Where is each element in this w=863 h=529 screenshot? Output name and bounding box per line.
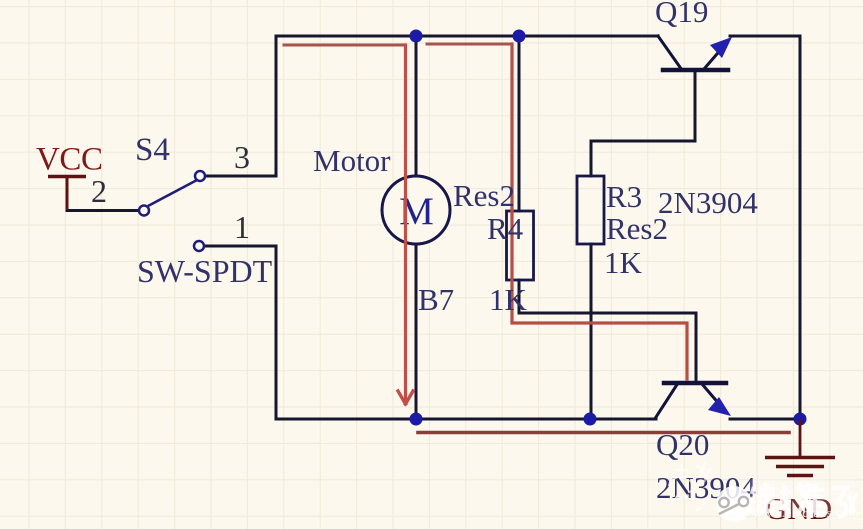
svg-text:SW-SPDT: SW-SPDT <box>137 253 273 289</box>
svg-text:Q19: Q19 <box>655 0 708 29</box>
svg-text:B7: B7 <box>418 282 454 317</box>
svg-text:VCC: VCC <box>36 142 103 178</box>
svg-text:2N3904: 2N3904 <box>658 185 758 220</box>
svg-text:1: 1 <box>234 209 250 245</box>
svg-text:www.elecfans.com: www.elecfans.com <box>858 463 863 529</box>
svg-text:S4: S4 <box>135 132 170 168</box>
svg-text:3: 3 <box>234 139 250 175</box>
svg-text:Q20: Q20 <box>656 427 709 462</box>
svg-text:1K: 1K <box>489 282 528 317</box>
svg-text:R3: R3 <box>606 179 642 214</box>
svg-text:1K: 1K <box>604 245 643 280</box>
svg-text:Res2: Res2 <box>453 178 515 213</box>
svg-text:www.elecfans.com: www.elecfans.com <box>753 505 860 520</box>
svg-text:2: 2 <box>91 173 107 209</box>
svg-text:Motor: Motor <box>313 143 391 178</box>
svg-text:R4: R4 <box>487 211 524 246</box>
